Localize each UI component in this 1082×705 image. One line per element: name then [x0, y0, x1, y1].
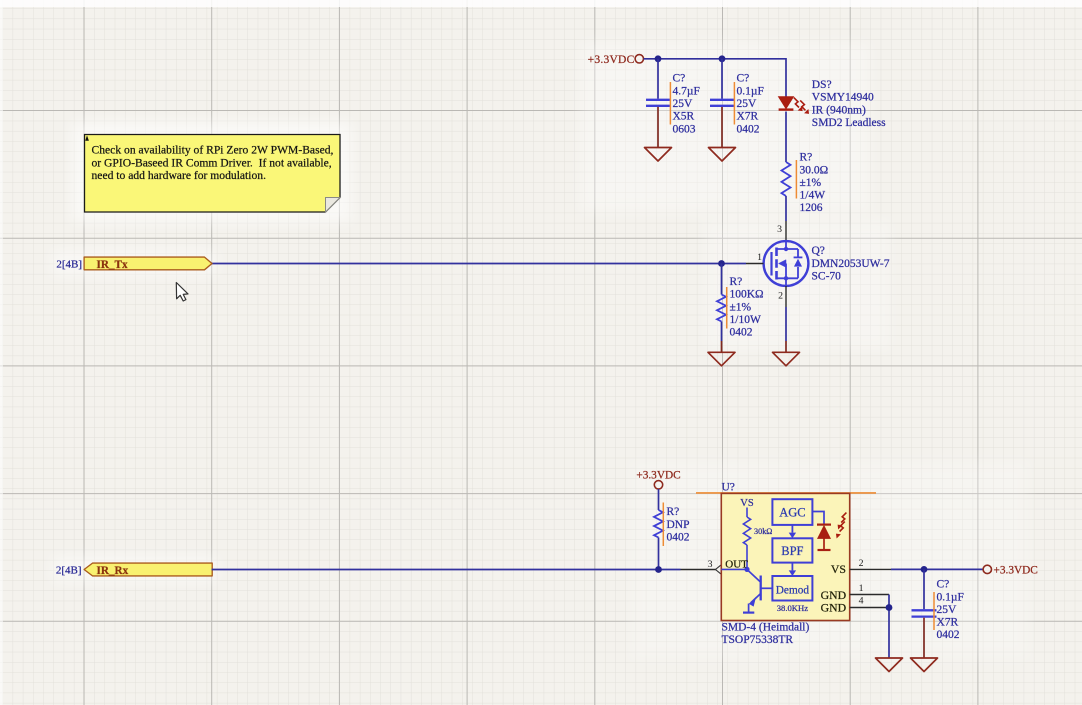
- svg-text:R?: R?: [800, 152, 813, 164]
- svg-text:1/4W: 1/4W: [800, 190, 826, 202]
- wire power to Rdnp: [658, 489, 660, 510]
- wire Rdnp to net: [658, 538, 660, 570]
- svg-text:2: 2: [778, 291, 783, 302]
- pin 3 direction arrow: [716, 565, 722, 575]
- C2 value labels: [737, 73, 764, 136]
- orange bar C3: [933, 592, 935, 630]
- junction VS / C filter: [921, 566, 928, 573]
- junction GND pins: [886, 604, 893, 611]
- svg-text:R?: R?: [667, 506, 680, 518]
- svg-text:0.1µF: 0.1µF: [937, 591, 964, 603]
- wire VS to +3.3VDC: [891, 568, 983, 570]
- capacitor C1 4.7uF symbol: [646, 59, 670, 148]
- svg-text:need to add hardware for modul: need to add hardware for modulation.: [92, 169, 267, 182]
- resistor Rdnp DNP symbol: [654, 510, 663, 538]
- pin 2 source: [785, 286, 787, 307]
- IC U? body: [721, 493, 849, 620]
- ground below GND pins: [876, 658, 903, 672]
- svg-text:VS: VS: [740, 498, 754, 509]
- resistor R100K symbol: [717, 295, 726, 322]
- wire +3.3VDC rail: [644, 59, 787, 97]
- svg-text:U?: U?: [722, 482, 735, 494]
- junction on rail at C2: [719, 55, 726, 62]
- mouse cursor: [176, 283, 188, 302]
- pin 2 VS: [850, 568, 891, 570]
- internal 30k resistor: [746, 508, 748, 518]
- junction IR_Rx / Rdnp: [655, 566, 662, 573]
- ground below C2: [709, 148, 736, 162]
- orange bar R100K: [726, 287, 728, 329]
- internal OUT trace junction: [721, 568, 747, 570]
- arrow BPF to Demod: [791, 563, 793, 571]
- wire source to ground: [785, 307, 787, 341]
- svg-text:±1%: ±1%: [730, 301, 752, 313]
- power port +3.3VDC (right): [983, 565, 1038, 577]
- arrow AGC to BPF: [791, 525, 793, 533]
- svg-text:IR (940nm): IR (940nm): [812, 104, 866, 116]
- svg-text:4: 4: [859, 596, 864, 607]
- svg-text:0402: 0402: [937, 629, 960, 641]
- photodiode incoming arrows: [840, 513, 847, 532]
- svg-text:IR_Rx: IR_Rx: [97, 565, 129, 577]
- svg-text:SMD-4 (Heimdall): SMD-4 (Heimdall): [722, 621, 810, 633]
- svg-text:3: 3: [708, 559, 713, 570]
- power port +3.3VDC (Rx pull-up): [636, 469, 680, 489]
- svg-text:25V: 25V: [737, 98, 758, 110]
- ground below Q?: [773, 352, 800, 366]
- svg-text:±1%: ±1%: [800, 177, 822, 189]
- svg-text:1: 1: [859, 583, 864, 594]
- pin 1 gate: [746, 263, 764, 265]
- svg-text:X7R: X7R: [737, 111, 759, 123]
- C1 value labels: [673, 73, 700, 136]
- svg-text:0402: 0402: [730, 327, 753, 339]
- svg-text:R?: R?: [730, 276, 743, 288]
- ground below C1: [645, 148, 672, 162]
- svg-text:4.7µF: 4.7µF: [673, 85, 700, 97]
- wire R30 to Q1 drain: [785, 196, 787, 221]
- svg-text:VSMY14940: VSMY14940: [812, 92, 874, 104]
- svg-text:2[4B]: 2[4B]: [56, 564, 82, 576]
- wire LED to R30: [785, 112, 787, 163]
- svg-text:OUT: OUT: [725, 559, 748, 571]
- svg-text:100KΩ: 100KΩ: [730, 289, 764, 301]
- LED emission arrows: [794, 98, 806, 111]
- svg-text:VS: VS: [831, 562, 846, 576]
- junction IR_Tx / R100K: [718, 260, 725, 267]
- junction on rail at C1: [655, 55, 662, 62]
- svg-text:1206: 1206: [800, 202, 823, 214]
- svg-text:+3.3VDC: +3.3VDC: [636, 469, 680, 481]
- svg-text:25V: 25V: [937, 604, 958, 616]
- port IR_Rx: [84, 563, 212, 577]
- svg-text:+3.3VDC: +3.3VDC: [588, 54, 635, 66]
- svg-text:C?: C?: [937, 579, 950, 591]
- capacitor C3 0.1uF symbol (right): [912, 569, 937, 658]
- ground below R100K: [708, 352, 735, 366]
- R100K value labels: [730, 276, 764, 339]
- wire R100K to ground: [721, 322, 723, 342]
- svg-text:38.0KHz: 38.0KHz: [777, 603, 808, 613]
- svg-text:IR_Tx: IR_Tx: [97, 259, 128, 271]
- svg-text:25V: 25V: [673, 98, 694, 110]
- svg-text:or GPIO-Baseed IR Comm Driver.: or GPIO-Baseed IR Comm Driver. If not av…: [92, 156, 332, 169]
- svg-text:2: 2: [859, 558, 864, 569]
- U? part labels: [722, 621, 810, 646]
- svg-text:C?: C?: [673, 73, 686, 85]
- wire junction to R100K: [721, 264, 723, 295]
- svg-text:1: 1: [757, 252, 762, 263]
- mosfet internal junction dots: [784, 247, 788, 251]
- svg-text:30kΩ: 30kΩ: [754, 527, 772, 536]
- Q? part labels: [812, 245, 890, 282]
- resistor R30 30.0ohm symbol: [782, 162, 791, 196]
- DS? part labels: [812, 79, 886, 129]
- internal AGC block: [772, 499, 812, 525]
- svg-text:Q?: Q?: [812, 245, 825, 257]
- wire IR_Rx net: [212, 569, 681, 571]
- orange bar C1: [669, 82, 671, 125]
- R30 value labels: [800, 152, 829, 215]
- svg-text:GND: GND: [821, 600, 847, 614]
- svg-text:30.0Ω: 30.0Ω: [800, 164, 829, 176]
- svg-text:DNP: DNP: [667, 519, 690, 531]
- port IR_Tx: [84, 257, 212, 271]
- svg-text:+3.3VDC: +3.3VDC: [994, 565, 1038, 577]
- svg-text:DS?: DS?: [812, 79, 832, 91]
- Rdnp value labels: [667, 506, 690, 543]
- power port +3.3VDC (top rail): [588, 54, 644, 66]
- pin 3 OUT: [681, 569, 722, 571]
- orange bar above U?: [696, 492, 876, 494]
- svg-text:0603: 0603: [673, 123, 696, 135]
- wire GND pins to ground: [888, 595, 890, 659]
- pin 4 GND: [850, 607, 889, 609]
- C3 value labels: [937, 579, 964, 642]
- svg-text:SMD2 Leadless: SMD2 Leadless: [812, 117, 886, 129]
- capacitor C2 0.1uF symbol: [710, 59, 734, 148]
- svg-text:0.1µF: 0.1µF: [737, 85, 764, 97]
- internal Demod block: [772, 576, 812, 601]
- svg-text:SC-70: SC-70: [812, 271, 842, 283]
- svg-text:Check on availability of RPi Z: Check on availability of RPi Zero 2W PWM…: [92, 144, 334, 157]
- svg-text:TSOP75338TR: TSOP75338TR: [722, 634, 794, 646]
- svg-text:0402: 0402: [667, 532, 690, 544]
- svg-text:BPF: BPF: [781, 544, 803, 558]
- svg-text:X5R: X5R: [673, 111, 695, 123]
- svg-text:1/10W: 1/10W: [730, 314, 761, 326]
- pin 1 GND: [850, 594, 889, 596]
- svg-text:X7R: X7R: [937, 617, 959, 629]
- orange bar C2: [733, 82, 735, 125]
- internal BPF block: [772, 538, 812, 562]
- sticky note: [85, 135, 341, 213]
- orange bar Rdnp: [662, 503, 664, 547]
- internal NPN transistor: [743, 570, 772, 613]
- svg-text:2[4B]: 2[4B]: [56, 259, 82, 271]
- note text: [92, 144, 334, 182]
- svg-text:0402: 0402: [737, 123, 760, 135]
- pin 3 drain: [785, 221, 787, 241]
- orange bar R30: [795, 160, 797, 199]
- svg-text:C?: C?: [737, 73, 750, 85]
- svg-text:3: 3: [777, 224, 782, 235]
- svg-text:Demod: Demod: [776, 584, 810, 596]
- mosfet Q? body: [764, 241, 809, 286]
- svg-text:AGC: AGC: [779, 505, 805, 519]
- internal photodiode: [812, 512, 824, 525]
- ground below C3: [911, 658, 938, 672]
- wire IR_Tx net: [211, 263, 747, 265]
- LED DS? IR emitter symbol: [779, 97, 794, 110]
- svg-text:DMN2053UW-7: DMN2053UW-7: [812, 258, 890, 270]
